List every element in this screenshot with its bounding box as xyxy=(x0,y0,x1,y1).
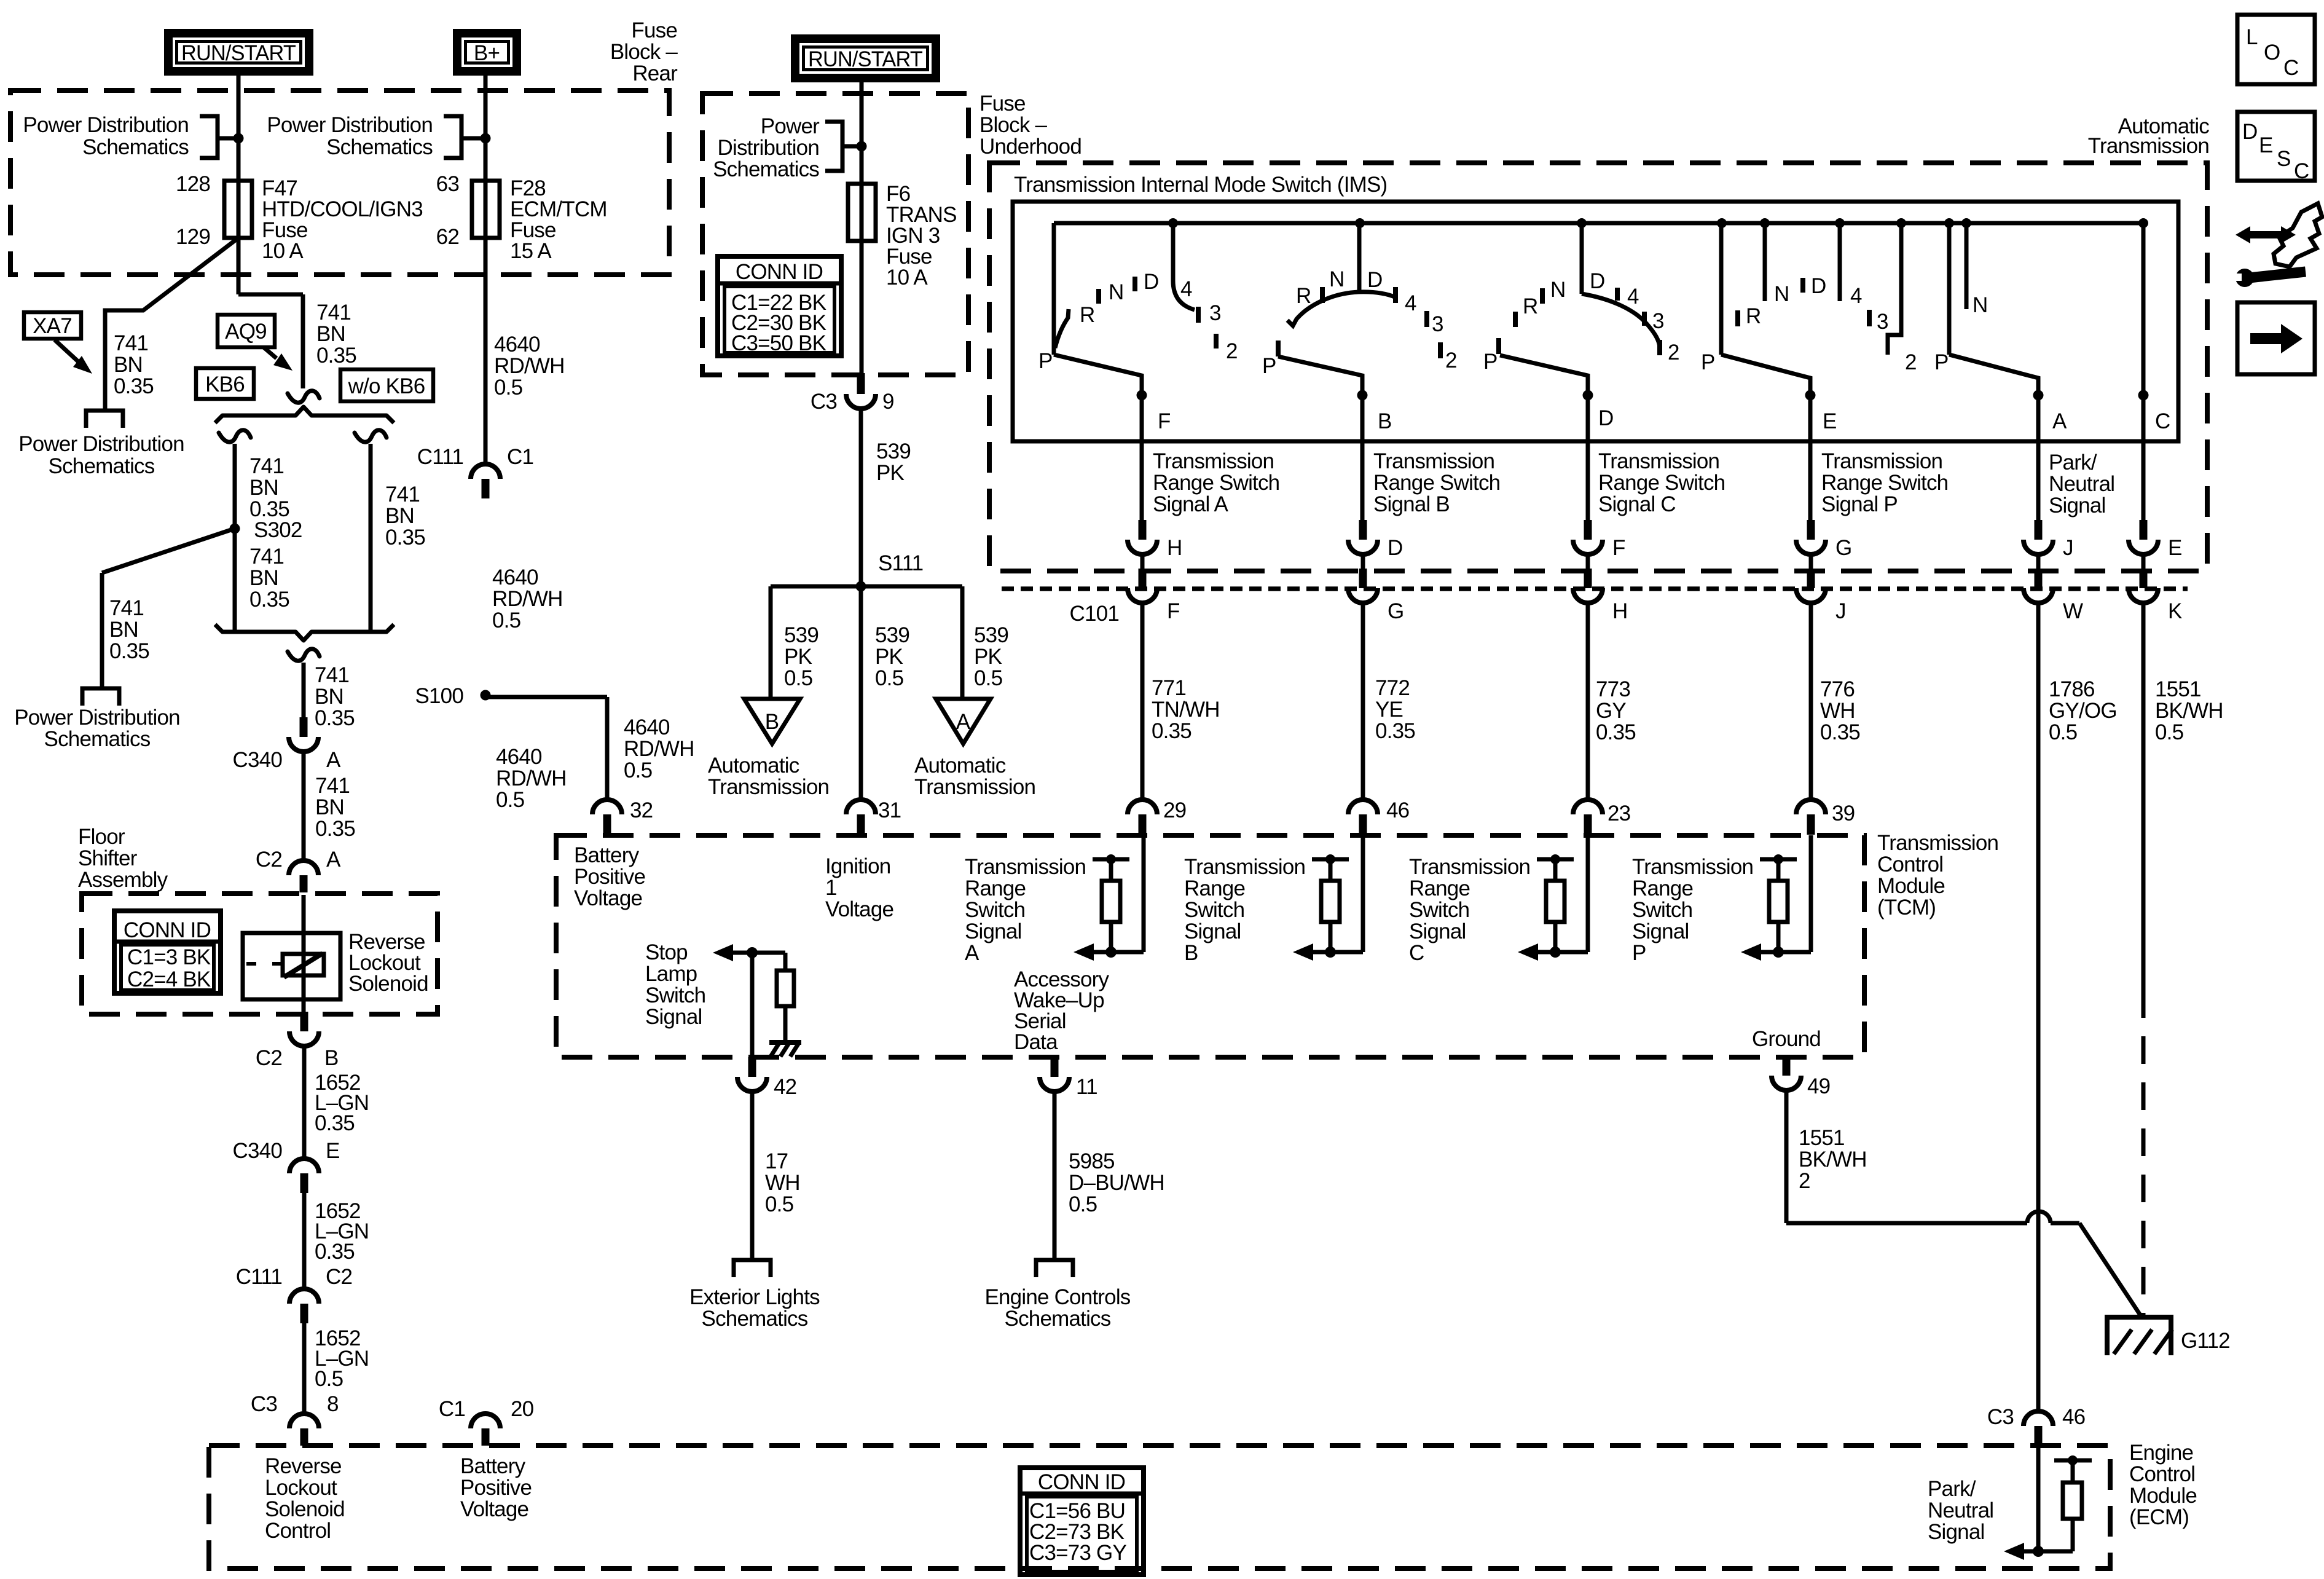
svg-text:D: D xyxy=(1144,270,1158,294)
svg-text:Signal: Signal xyxy=(2049,494,2106,518)
svg-text:Shifter: Shifter xyxy=(78,846,138,870)
svg-text:Signal: Signal xyxy=(645,1005,702,1029)
svg-text:741: 741 xyxy=(249,454,284,478)
svg-text:Transmission: Transmission xyxy=(708,775,829,799)
svg-text:771: 771 xyxy=(1152,676,1186,700)
svg-text:Floor: Floor xyxy=(78,825,125,849)
svg-text:XA7: XA7 xyxy=(33,314,72,338)
svg-text:Neutral: Neutral xyxy=(2049,472,2114,496)
svg-text:K: K xyxy=(2168,599,2182,623)
svg-text:Transmission: Transmission xyxy=(1184,855,1305,879)
svg-text:D: D xyxy=(1367,268,1382,292)
svg-text:AQ9: AQ9 xyxy=(225,320,267,344)
svg-text:C3: C3 xyxy=(1987,1405,2014,1429)
svg-text:BN: BN xyxy=(385,504,414,528)
svg-text:46: 46 xyxy=(1386,798,1409,822)
svg-text:Range Switch: Range Switch xyxy=(1598,471,1725,495)
svg-text:741: 741 xyxy=(109,596,144,620)
svg-text:741: 741 xyxy=(315,663,349,687)
svg-text:RD/WH: RD/WH xyxy=(496,766,567,790)
svg-text:2: 2 xyxy=(1799,1169,1810,1193)
svg-text:0.5: 0.5 xyxy=(2049,720,2077,744)
svg-text:PK: PK xyxy=(974,645,1002,669)
svg-text:Engine: Engine xyxy=(2129,1441,2193,1465)
svg-text:WH: WH xyxy=(765,1171,800,1195)
svg-text:C2: C2 xyxy=(326,1265,352,1289)
svg-text:E: E xyxy=(326,1139,340,1163)
svg-text:PK: PK xyxy=(784,645,812,669)
svg-text:Range: Range xyxy=(1632,876,1693,900)
svg-text:3: 3 xyxy=(1432,312,1443,336)
svg-text:0.5: 0.5 xyxy=(1069,1192,1097,1216)
svg-text:E: E xyxy=(1823,409,1837,433)
svg-text:741: 741 xyxy=(249,545,284,569)
svg-text:11: 11 xyxy=(1076,1075,1097,1099)
svg-text:46: 46 xyxy=(2062,1405,2085,1429)
svg-text:32: 32 xyxy=(630,798,653,822)
svg-text:Range: Range xyxy=(965,876,1026,900)
svg-text:Park/: Park/ xyxy=(1928,1477,1976,1501)
svg-text:B: B xyxy=(324,1046,339,1070)
svg-text:539: 539 xyxy=(876,439,911,463)
svg-text:C2: C2 xyxy=(256,848,282,872)
svg-text:C1: C1 xyxy=(439,1397,465,1421)
svg-text:Switch: Switch xyxy=(645,983,705,1007)
svg-text:4640: 4640 xyxy=(492,565,538,589)
svg-text:0.5: 0.5 xyxy=(974,666,1002,690)
svg-text:H: H xyxy=(1612,599,1627,623)
svg-text:Transmission: Transmission xyxy=(1598,449,1719,473)
svg-text:Range Switch: Range Switch xyxy=(1821,471,1948,495)
svg-text:A: A xyxy=(956,710,971,734)
svg-text:0.35: 0.35 xyxy=(1820,720,1860,744)
svg-text:Automatic: Automatic xyxy=(708,754,799,778)
svg-text:Range: Range xyxy=(1184,876,1245,900)
svg-text:Schematics: Schematics xyxy=(82,135,189,159)
svg-text:P: P xyxy=(1262,354,1276,378)
svg-text:539: 539 xyxy=(974,623,1008,647)
svg-text:Ground: Ground xyxy=(1752,1027,1821,1051)
svg-text:BN: BN xyxy=(114,353,143,377)
svg-text:1551: 1551 xyxy=(2155,677,2201,701)
svg-text:BN: BN xyxy=(315,685,343,709)
svg-text:KB6: KB6 xyxy=(205,372,245,396)
svg-text:0.35: 0.35 xyxy=(315,1111,355,1135)
svg-text:GY: GY xyxy=(1596,699,1626,723)
svg-text:Battery: Battery xyxy=(574,843,640,867)
svg-text:C111: C111 xyxy=(417,445,463,469)
svg-text:Transmission: Transmission xyxy=(1153,449,1274,473)
svg-text:N: N xyxy=(1550,278,1565,302)
svg-text:Schematics: Schematics xyxy=(326,135,433,159)
svg-text:D: D xyxy=(1388,536,1402,560)
svg-text:B: B xyxy=(765,710,779,734)
svg-text:Schematics: Schematics xyxy=(713,157,819,181)
svg-text:Distribution: Distribution xyxy=(718,136,819,160)
svg-text:Voltage: Voltage xyxy=(460,1497,528,1521)
svg-text:BN: BN xyxy=(109,618,138,642)
svg-text:Voltage: Voltage xyxy=(825,897,893,921)
svg-text:3: 3 xyxy=(1209,301,1221,325)
svg-text:Reverse: Reverse xyxy=(265,1454,342,1478)
svg-text:23: 23 xyxy=(1608,801,1630,825)
svg-text:C: C xyxy=(1409,941,1424,965)
svg-text:0.5: 0.5 xyxy=(492,608,520,632)
svg-text:F: F xyxy=(1167,599,1180,623)
svg-text:0.5: 0.5 xyxy=(784,666,812,690)
svg-text:C: C xyxy=(2155,409,2170,433)
svg-text:49: 49 xyxy=(1807,1074,1830,1098)
svg-text:29: 29 xyxy=(1163,798,1186,822)
svg-text:C3: C3 xyxy=(251,1392,277,1416)
svg-text:0.35: 0.35 xyxy=(316,344,356,368)
svg-text:63: 63 xyxy=(436,172,459,196)
svg-text:C: C xyxy=(2294,159,2309,183)
svg-text:G: G xyxy=(1388,599,1403,623)
svg-text:10 A: 10 A xyxy=(262,239,304,263)
svg-text:539: 539 xyxy=(875,623,909,647)
svg-text:0.35: 0.35 xyxy=(109,639,149,663)
svg-text:129: 129 xyxy=(176,225,210,249)
svg-text:Block –: Block – xyxy=(610,40,678,64)
svg-text:8: 8 xyxy=(327,1392,339,1416)
svg-text:Schematics: Schematics xyxy=(1005,1307,1111,1331)
svg-text:Signal: Signal xyxy=(1632,919,1689,943)
svg-text:0.35: 0.35 xyxy=(315,1240,355,1264)
svg-text:Lamp: Lamp xyxy=(645,962,697,986)
svg-text:BN: BN xyxy=(249,566,278,590)
svg-text:P: P xyxy=(1934,350,1949,374)
svg-text:2: 2 xyxy=(1445,348,1457,372)
svg-text:Control: Control xyxy=(265,1519,331,1543)
svg-text:C2=4 BK: C2=4 BK xyxy=(127,967,211,991)
svg-text:S: S xyxy=(2277,147,2291,171)
svg-text:Signal A: Signal A xyxy=(1153,492,1228,516)
svg-text:0.35: 0.35 xyxy=(315,706,355,730)
svg-text:0.35: 0.35 xyxy=(1375,719,1415,743)
svg-text:Range Switch: Range Switch xyxy=(1153,471,1279,495)
svg-text:0.35: 0.35 xyxy=(1152,719,1191,743)
svg-text:0.35: 0.35 xyxy=(1596,720,1636,744)
svg-text:4: 4 xyxy=(1180,277,1192,301)
svg-text:F: F xyxy=(1158,409,1171,433)
svg-text:773: 773 xyxy=(1596,677,1630,701)
svg-text:R: R xyxy=(1296,284,1311,308)
svg-text:(TCM): (TCM) xyxy=(1877,896,1936,919)
svg-text:Power Distribution: Power Distribution xyxy=(18,432,184,456)
svg-text:P: P xyxy=(1701,350,1715,374)
svg-text:BN: BN xyxy=(249,476,278,500)
svg-text:Power Distribution: Power Distribution xyxy=(14,706,180,730)
svg-text:C: C xyxy=(2283,56,2298,80)
svg-text:Signal: Signal xyxy=(1409,919,1466,943)
svg-text:Transmission: Transmission xyxy=(2088,134,2209,158)
svg-text:4: 4 xyxy=(1850,284,1862,308)
svg-text:C3: C3 xyxy=(811,390,837,414)
svg-text:42: 42 xyxy=(774,1075,796,1099)
svg-text:RUN/START: RUN/START xyxy=(181,41,296,65)
svg-text:Module: Module xyxy=(1877,874,1945,898)
svg-text:C3=50 BK: C3=50 BK xyxy=(731,331,826,355)
svg-text:Rear: Rear xyxy=(632,61,678,85)
svg-text:C340: C340 xyxy=(233,1139,283,1163)
svg-text:J: J xyxy=(2063,536,2073,560)
svg-text:Switch: Switch xyxy=(1184,898,1244,922)
svg-text:Voltage: Voltage xyxy=(574,886,642,910)
svg-text:0.35: 0.35 xyxy=(114,374,154,398)
svg-text:3: 3 xyxy=(1652,309,1664,333)
svg-text:C1: C1 xyxy=(507,445,533,469)
svg-text:P: P xyxy=(1483,350,1498,374)
svg-text:S302: S302 xyxy=(254,518,302,542)
svg-text:Stop: Stop xyxy=(645,940,688,964)
svg-text:Transmission: Transmission xyxy=(965,855,1086,879)
svg-text:YE: YE xyxy=(1375,698,1403,722)
svg-text:Control: Control xyxy=(2129,1462,2195,1486)
svg-text:CONN ID: CONN ID xyxy=(736,260,823,284)
svg-text:4640: 4640 xyxy=(624,715,670,739)
svg-text:RD/WH: RD/WH xyxy=(492,587,563,611)
svg-text:Engine Controls: Engine Controls xyxy=(984,1285,1130,1309)
svg-text:Signal: Signal xyxy=(965,919,1022,943)
svg-text:128: 128 xyxy=(176,172,210,196)
svg-text:2: 2 xyxy=(1226,339,1238,363)
svg-text:BN: BN xyxy=(316,322,345,346)
svg-text:0.35: 0.35 xyxy=(315,817,355,841)
svg-text:31: 31 xyxy=(878,798,901,822)
svg-text:D: D xyxy=(1811,274,1826,298)
svg-text:0.5: 0.5 xyxy=(875,666,903,690)
svg-text:5985: 5985 xyxy=(1069,1149,1115,1173)
svg-text:2: 2 xyxy=(1905,350,1917,374)
svg-text:0.5: 0.5 xyxy=(2155,720,2183,744)
svg-text:J: J xyxy=(1835,599,1846,623)
svg-text:Transmission: Transmission xyxy=(1632,855,1753,879)
svg-text:Solenoid: Solenoid xyxy=(265,1497,345,1521)
svg-text:0.35: 0.35 xyxy=(249,588,289,612)
svg-text:Signal: Signal xyxy=(1184,919,1241,943)
svg-text:Battery: Battery xyxy=(460,1454,526,1478)
svg-text:B+: B+ xyxy=(474,41,500,65)
svg-text:0.35: 0.35 xyxy=(385,526,425,549)
svg-text:Power: Power xyxy=(761,114,820,138)
svg-text:20: 20 xyxy=(511,1397,534,1421)
svg-text:Positive: Positive xyxy=(574,865,645,889)
svg-text:D–BU/WH: D–BU/WH xyxy=(1069,1171,1164,1195)
svg-text:CONN ID: CONN ID xyxy=(124,918,211,942)
svg-text:WH: WH xyxy=(1820,699,1855,723)
svg-text:0.5: 0.5 xyxy=(496,788,524,812)
svg-text:Exterior Lights: Exterior Lights xyxy=(689,1285,820,1309)
svg-text:P: P xyxy=(1038,349,1053,373)
svg-text:RUN/START: RUN/START xyxy=(808,47,922,71)
svg-text:Switch: Switch xyxy=(1409,898,1469,922)
svg-text:C111: C111 xyxy=(236,1265,282,1289)
svg-text:Signal: Signal xyxy=(1928,1520,1985,1544)
svg-text:C340: C340 xyxy=(233,748,283,772)
svg-text:GY/OG: GY/OG xyxy=(2049,699,2117,723)
svg-text:Switch: Switch xyxy=(1632,898,1692,922)
svg-text:741: 741 xyxy=(316,301,351,325)
svg-text:Assembly: Assembly xyxy=(78,868,168,892)
svg-text:741: 741 xyxy=(114,331,148,355)
svg-text:4: 4 xyxy=(1627,285,1639,309)
svg-text:772: 772 xyxy=(1375,676,1410,700)
svg-text:Transmission: Transmission xyxy=(1373,449,1494,473)
svg-text:Data: Data xyxy=(1014,1030,1058,1054)
svg-text:F: F xyxy=(1612,536,1625,560)
svg-text:E: E xyxy=(2259,133,2273,157)
svg-text:Fuse: Fuse xyxy=(979,92,1026,116)
svg-text:Transmission: Transmission xyxy=(914,775,1035,799)
svg-text:Ignition: Ignition xyxy=(825,854,890,878)
svg-text:G112: G112 xyxy=(2181,1329,2230,1353)
svg-text:10 A: 10 A xyxy=(886,266,928,289)
svg-text:RD/WH: RD/WH xyxy=(624,737,694,761)
svg-text:H: H xyxy=(1167,536,1182,560)
svg-text:0.5: 0.5 xyxy=(315,1367,343,1391)
svg-text:Neutral: Neutral xyxy=(1928,1498,1993,1522)
svg-text:Transmission: Transmission xyxy=(1821,449,1942,473)
svg-text:D: D xyxy=(1590,269,1604,293)
svg-text:BK/WH: BK/WH xyxy=(2155,699,2223,723)
svg-text:E: E xyxy=(2168,536,2182,560)
svg-text:A: A xyxy=(2052,409,2067,433)
svg-text:Underhood: Underhood xyxy=(979,135,1082,159)
svg-text:0.5: 0.5 xyxy=(765,1192,793,1216)
svg-text:S111: S111 xyxy=(878,551,923,575)
svg-text:Transmission: Transmission xyxy=(1409,855,1530,879)
svg-text:Schematics: Schematics xyxy=(49,454,155,478)
svg-text:4640: 4640 xyxy=(496,745,542,769)
svg-text:TN/WH: TN/WH xyxy=(1152,698,1220,722)
svg-text:BN: BN xyxy=(315,795,344,819)
svg-text:C2: C2 xyxy=(256,1046,282,1070)
svg-text:w/o KB6: w/o KB6 xyxy=(348,374,425,398)
svg-text:Schematics: Schematics xyxy=(702,1307,808,1331)
svg-text:776: 776 xyxy=(1820,677,1855,701)
svg-text:Fuse: Fuse xyxy=(631,18,677,42)
svg-text:Range Switch: Range Switch xyxy=(1373,471,1500,495)
svg-text:L: L xyxy=(2246,25,2258,49)
svg-text:Lockout: Lockout xyxy=(265,1476,337,1500)
svg-text:Block –: Block – xyxy=(979,113,1048,137)
svg-text:Signal B: Signal B xyxy=(1373,492,1450,516)
svg-text:Power Distribution: Power Distribution xyxy=(23,113,189,137)
svg-text:N: N xyxy=(1109,280,1123,304)
svg-text:A: A xyxy=(965,941,979,965)
svg-text:741: 741 xyxy=(315,774,350,798)
svg-text:Schematics: Schematics xyxy=(44,727,151,751)
svg-text:BK/WH: BK/WH xyxy=(1799,1148,1867,1171)
svg-text:Transmission Internal Mode Swi: Transmission Internal Mode Switch (IMS) xyxy=(1014,173,1387,197)
svg-text:D: D xyxy=(2242,120,2257,144)
svg-text:B: B xyxy=(1378,409,1392,433)
svg-text:(ECM): (ECM) xyxy=(2129,1505,2189,1529)
svg-text:741: 741 xyxy=(385,482,420,506)
svg-text:0.5: 0.5 xyxy=(624,758,652,782)
svg-text:3: 3 xyxy=(1877,310,1888,334)
svg-text:Signal C: Signal C xyxy=(1598,492,1676,516)
svg-text:PK: PK xyxy=(876,461,905,485)
svg-text:N: N xyxy=(1973,293,1987,317)
svg-text:C1=3 BK: C1=3 BK xyxy=(127,945,211,969)
svg-text:1: 1 xyxy=(825,876,837,900)
svg-text:C101: C101 xyxy=(1070,602,1119,626)
svg-text:39: 39 xyxy=(1832,801,1855,825)
svg-text:R: R xyxy=(1080,303,1094,327)
svg-text:0.5: 0.5 xyxy=(494,376,522,400)
svg-text:A: A xyxy=(326,848,341,872)
svg-text:17: 17 xyxy=(765,1149,788,1173)
svg-text:Transmission: Transmission xyxy=(1877,831,1998,855)
svg-text:Control: Control xyxy=(1877,853,1943,876)
svg-text:O: O xyxy=(2264,41,2280,65)
svg-text:Module: Module xyxy=(2129,1484,2197,1508)
svg-text:W: W xyxy=(2063,599,2083,623)
svg-text:S100: S100 xyxy=(415,684,463,708)
svg-text:15 A: 15 A xyxy=(510,239,552,263)
svg-text:B: B xyxy=(1184,941,1198,965)
svg-text:Power Distribution: Power Distribution xyxy=(267,113,433,137)
svg-text:N: N xyxy=(1329,267,1344,291)
svg-text:P: P xyxy=(1632,941,1646,965)
svg-text:Park/: Park/ xyxy=(2049,451,2097,474)
svg-text:R: R xyxy=(1746,304,1761,328)
svg-text:1786: 1786 xyxy=(2049,677,2095,701)
svg-text:4: 4 xyxy=(1405,291,1416,315)
svg-text:D: D xyxy=(1598,406,1613,430)
svg-text:4640: 4640 xyxy=(494,333,540,356)
svg-text:Range: Range xyxy=(1409,876,1470,900)
svg-text:9: 9 xyxy=(882,390,894,414)
svg-text:Automatic: Automatic xyxy=(914,754,1006,778)
svg-text:Switch: Switch xyxy=(965,898,1025,922)
svg-text:Positive: Positive xyxy=(460,1476,532,1500)
svg-text:1551: 1551 xyxy=(1799,1126,1845,1150)
svg-text:539: 539 xyxy=(784,623,819,647)
svg-text:2: 2 xyxy=(1668,341,1679,364)
svg-text:CONN ID: CONN ID xyxy=(1038,1470,1125,1494)
svg-text:Solenoid: Solenoid xyxy=(348,972,428,996)
svg-text:R: R xyxy=(1523,294,1537,318)
svg-text:RD/WH: RD/WH xyxy=(494,354,565,378)
svg-text:A: A xyxy=(326,748,341,772)
svg-text:Signal P: Signal P xyxy=(1821,492,1898,516)
svg-text:PK: PK xyxy=(875,645,903,669)
svg-text:N: N xyxy=(1774,282,1789,306)
svg-text:G: G xyxy=(1835,536,1851,560)
svg-text:C3=73 GY: C3=73 GY xyxy=(1029,1541,1126,1565)
svg-text:62: 62 xyxy=(436,225,459,249)
